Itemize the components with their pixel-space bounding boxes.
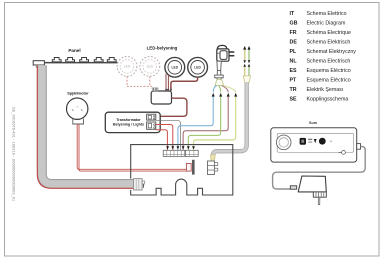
LED lamp E4 bbox=[188, 57, 208, 77]
display icon bbox=[300, 138, 306, 145]
auxiliary cable stubs with arrows bbox=[243, 46, 250, 83]
transformer output connector (top) bbox=[147, 114, 156, 120]
svg-text:Schema Elektrisch: Schema Elektrisch bbox=[307, 40, 351, 46]
ribbon connector J1 bbox=[134, 179, 145, 190]
svg-text:ES: ES bbox=[290, 68, 298, 74]
svg-text:LED: LED bbox=[171, 66, 178, 70]
power adapter U1 bbox=[298, 176, 326, 205]
svg-text:Belysning / Lights: Belysning / Lights bbox=[113, 122, 144, 126]
terminal strip X2 bbox=[163, 150, 198, 156]
power socket tab bbox=[357, 144, 361, 150]
terminal arrows bbox=[166, 146, 195, 149]
transformer red feed wire 2 bbox=[156, 125, 173, 151]
pcb header X1 bbox=[192, 160, 195, 175]
svg-text:Spjällmotor: Spjällmotor bbox=[67, 90, 89, 95]
svg-text:LED: LED bbox=[147, 65, 154, 69]
blue wire L bbox=[178, 97, 213, 151]
green wire bbox=[188, 97, 220, 151]
svg-text:TR: TR bbox=[290, 87, 297, 93]
damper motor M1 bbox=[67, 98, 88, 124]
svg-text:Kopplingsschema: Kopplingsschema bbox=[307, 97, 349, 103]
svg-text:GB: GB bbox=[290, 21, 298, 27]
yellow-green earth wire bbox=[194, 97, 236, 151]
svg-text:PL: PL bbox=[290, 49, 298, 55]
adapter pin bbox=[318, 197, 320, 204]
svg-text:FR: FR bbox=[290, 30, 297, 36]
LED E3 wire pair bbox=[166, 74, 168, 91]
corner icon bbox=[342, 151, 346, 155]
ribbon red stripe bbox=[37, 65, 134, 188]
svg-text:PT: PT bbox=[290, 78, 298, 84]
optional LED lamp E2 (dashed) bbox=[140, 57, 160, 77]
svg-text:Transformator: Transformator bbox=[116, 118, 141, 122]
remote control unit A3 bbox=[271, 128, 361, 162]
adapter cable bbox=[273, 146, 366, 189]
svg-text:SE: SE bbox=[290, 97, 298, 103]
mains plug P2 bbox=[217, 45, 235, 61]
power button bbox=[319, 138, 326, 145]
transformer black wire bbox=[156, 120, 181, 150]
continuation arrows bbox=[212, 93, 238, 97]
svg-text:NL: NL bbox=[290, 59, 298, 65]
svg-text:LED: LED bbox=[194, 66, 201, 70]
svg-text:Schéma Electrique: Schéma Electrique bbox=[307, 30, 352, 36]
fan-out wires from plug bbox=[213, 86, 216, 93]
optional LED lamp E1 (dashed) bbox=[117, 57, 137, 77]
svg-text:Electric Diagram: Electric Diagram bbox=[307, 21, 346, 27]
svg-text:LED: LED bbox=[124, 65, 131, 69]
junction box output wire to transformer bbox=[156, 98, 187, 116]
svg-text:Elektrik Şeması: Elektrik Şeması bbox=[307, 87, 344, 93]
plug pins bbox=[229, 52, 234, 56]
transformer red feed wire 1 bbox=[156, 130, 168, 151]
motor plug J2 bbox=[186, 164, 191, 172]
svg-text:Schema Elettrico: Schema Elettrico bbox=[307, 11, 347, 17]
LED lamp E3 bbox=[165, 57, 185, 77]
plug cable neck bbox=[217, 61, 221, 70]
brown wire N bbox=[183, 97, 228, 151]
svg-text:Panel: Panel bbox=[68, 48, 80, 53]
internal terminal block bbox=[208, 155, 218, 175]
LED E4 wire bbox=[171, 77, 198, 91]
menu marks bbox=[308, 139, 312, 140]
gray mains cable into hood bbox=[213, 83, 247, 156]
svg-text:Sum: Sum bbox=[309, 121, 318, 125]
svg-text:SE_9910676-431 - 160219 - D000: SE_9910676-431 - 160219 - D0000000000000… bbox=[11, 107, 15, 201]
stub boot bbox=[243, 76, 250, 83]
svg-text:Schemat Elektryczny: Schemat Elektryczny bbox=[307, 49, 357, 55]
svg-text:IT: IT bbox=[290, 11, 295, 17]
svg-text:Esquema Eléctrico: Esquema Eléctrico bbox=[307, 68, 351, 74]
LED junction box A2 bbox=[151, 88, 172, 104]
svg-text:Esquema Eléctrico: Esquema Eléctrico bbox=[307, 78, 351, 84]
hood housing outline bbox=[131, 145, 233, 195]
motor wire pair (red) bbox=[77, 124, 187, 171]
buzzer bbox=[276, 135, 291, 150]
ribbon cable W1 bbox=[37, 65, 134, 188]
adapter dc plug bbox=[290, 186, 296, 189]
language legend bbox=[290, 11, 357, 103]
svg-text:DE: DE bbox=[290, 40, 298, 46]
cable clamp bbox=[215, 75, 224, 78]
control panel P1 bbox=[33, 58, 124, 68]
optional LED wire (dashed red) bbox=[127, 77, 152, 89]
transformer T1 bbox=[105, 112, 160, 132]
svg-text:LED-belysning: LED-belysning bbox=[147, 45, 178, 50]
svg-text:Schema Electrisch: Schema Electrisch bbox=[307, 59, 351, 65]
cable split boot bbox=[215, 79, 224, 85]
transformer output connector (bottom) bbox=[147, 122, 156, 129]
